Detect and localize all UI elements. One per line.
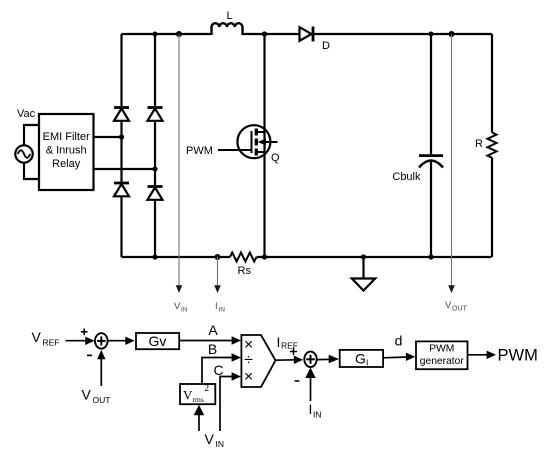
svg-text:V: V: [82, 387, 92, 403]
wire: VIN to multiplier input C: [220, 372, 241, 431]
EMI Filter & Inrush Relay box: [39, 114, 94, 190]
node VOUT probe: [445, 34, 468, 313]
svg-text:OUT: OUT: [93, 395, 111, 405]
junction: VOUT probe / top rail: [449, 31, 455, 37]
wire: VIN into Vrms2: [194, 405, 205, 431]
svg-text:2: 2: [205, 383, 210, 393]
wire: GI to PWM generator: [383, 353, 415, 361]
wire: Gv to multiplier input A: [179, 336, 241, 344]
transistor Q: [237, 125, 280, 164]
svg-text:V: V: [183, 388, 193, 403]
svg-text:V: V: [174, 301, 181, 312]
diode D4 bridge bottom-right: [148, 187, 163, 200]
svg-text:I: I: [277, 334, 281, 350]
svg-text:PWM: PWM: [429, 344, 454, 355]
svg-text:R: R: [475, 138, 483, 150]
label VOUT feedback: [82, 387, 111, 406]
junction: Cbulk / top rail: [429, 32, 434, 37]
svg-text:IN: IN: [216, 439, 225, 449]
junction: source / bottom rail: [262, 254, 267, 259]
svg-text:REF: REF: [43, 338, 60, 348]
block GI: [340, 350, 383, 368]
summer S2: [304, 352, 316, 367]
wire: left bridge leg: [120, 34, 122, 257]
capacitor Cbulk: [392, 34, 443, 257]
junction: Cbulk / bottom rail: [428, 254, 433, 259]
label IIN feedback: [309, 401, 322, 420]
wire: right bridge leg: [154, 34, 156, 257]
wire: source to EMI box top: [24, 125, 39, 145]
label minus S2: [295, 380, 300, 382]
label VIN bottom: [205, 431, 225, 449]
resistor R: [475, 34, 497, 257]
svg-text:G: G: [355, 350, 366, 366]
svg-text:Relay: Relay: [52, 158, 81, 170]
junction: ground / bottom rail: [361, 254, 366, 259]
label VREF: [32, 329, 60, 348]
label minus S1: [87, 354, 92, 356]
label plus S1: [81, 329, 88, 336]
svg-text:Rs: Rs: [238, 265, 252, 277]
node VIN probe: [174, 34, 188, 314]
inductor L: [212, 10, 243, 35]
svg-text:I: I: [215, 301, 218, 312]
wire: VREF to summer S1: [66, 337, 95, 345]
wire: bottom rail right segment: [257, 256, 492, 258]
block multiplier-divider: [241, 335, 275, 387]
wire: IIN feedback into S2: [305, 368, 315, 402]
wire: multiplier output IREF to S2: [276, 356, 304, 364]
ground: [352, 257, 375, 291]
svg-text:EMI Filter: EMI Filter: [43, 131, 90, 143]
diode D: [300, 27, 331, 53]
diode D1 bridge top-left: [114, 108, 129, 121]
Vac source: [15, 108, 35, 163]
wire: bottom rail left segment: [122, 256, 231, 258]
svg-text:IN: IN: [181, 307, 188, 314]
resistor Rs: [230, 253, 256, 278]
diode D2 bridge top-right: [148, 108, 163, 121]
diode D3 bridge bottom-left: [114, 183, 129, 196]
wire: Vrms2 to multiplier input B: [202, 353, 241, 384]
svg-text:IN: IN: [219, 307, 226, 314]
wire: top rail left segment: [122, 33, 212, 35]
svg-text:REF: REF: [281, 340, 298, 350]
svg-text:I: I: [309, 401, 313, 417]
block Gv: [136, 333, 179, 349]
svg-text:÷: ÷: [244, 352, 253, 369]
svg-text:C: C: [213, 362, 223, 378]
svg-text:PWM: PWM: [186, 145, 213, 157]
label plus S2: [290, 348, 297, 355]
junction: right leg / bottom rail: [152, 254, 157, 259]
svg-text:rms: rms: [193, 395, 204, 404]
junction: VIN probe / top rail: [176, 31, 182, 37]
wire: VOUT feedback into S1: [97, 350, 105, 386]
junction: right leg / top rail: [153, 32, 158, 37]
svg-text:IN: IN: [313, 410, 322, 420]
svg-text:PWM: PWM: [498, 347, 538, 365]
wire: source to EMI box bottom: [24, 163, 39, 179]
wire: PWM output: [468, 351, 496, 359]
svg-text:Vac: Vac: [17, 108, 36, 120]
label IREF: [277, 334, 299, 350]
junction: left AC node: [119, 134, 124, 139]
svg-text:d: d: [395, 333, 403, 349]
wire: EMI box to right bridge node: [94, 168, 156, 170]
svg-text:Cbulk: Cbulk: [392, 171, 421, 183]
svg-text:D: D: [322, 40, 330, 52]
svg-text:A: A: [208, 322, 218, 338]
svg-text:V: V: [205, 431, 215, 447]
svg-text:& Inrush: & Inrush: [46, 145, 87, 157]
svg-text:B: B: [208, 341, 217, 357]
summer S1: [95, 333, 108, 348]
MOSFET Q drain-source wire: [263, 34, 265, 257]
svg-text:generator: generator: [420, 356, 465, 367]
wire: top rail right segment: [243, 33, 493, 35]
svg-text:Gv: Gv: [149, 333, 167, 349]
svg-text:OUT: OUT: [452, 306, 468, 313]
svg-text:V: V: [32, 329, 42, 345]
svg-text:Q: Q: [271, 152, 280, 164]
junction: drain / top rail: [262, 31, 267, 36]
svg-text:I: I: [366, 358, 368, 368]
block PWM generator: [416, 341, 468, 369]
svg-text:×: ×: [244, 368, 253, 385]
junction: right AC node: [152, 166, 157, 171]
wire: S1 to Gv: [108, 337, 135, 345]
node IIN probe: [214, 257, 225, 314]
block Vrms squared: [180, 383, 215, 404]
wire: PWM gate: [218, 149, 252, 151]
wire: S2 to GI: [316, 355, 339, 363]
junction: IIN probe / bottom rail: [215, 254, 221, 260]
svg-text:L: L: [226, 10, 232, 22]
wire: EMI box to left bridge node: [94, 136, 122, 138]
svg-text:V: V: [445, 300, 452, 311]
